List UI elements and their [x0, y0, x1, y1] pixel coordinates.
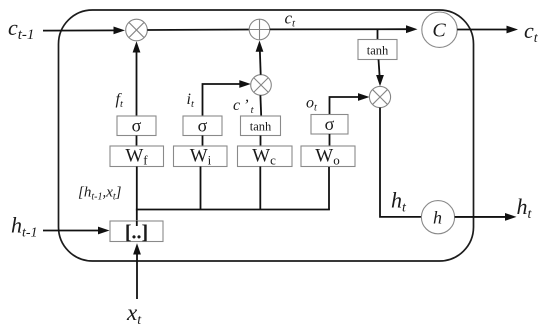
wire Wf down to concat box — [136, 167, 138, 226]
svg-text:C: C — [432, 20, 446, 42]
wire Wo down to bus — [328, 167, 330, 210]
gate box sigma1 — [117, 116, 156, 136]
wire tanh gate to Wc — [260, 136, 262, 147]
svg-text:ht: ht — [391, 188, 407, 216]
svg-text:ct: ct — [524, 18, 539, 46]
wire multiplier X3 down and right to output — [380, 108, 508, 217]
weight box Wf — [110, 146, 164, 168]
wire adder to C circle — [270, 28, 408, 30]
svg-text:ft: ft — [116, 91, 124, 110]
weight box Wc — [238, 146, 293, 168]
wire elbow sigma4 to multiplier X3 — [330, 97, 364, 115]
multiplier X3 (output gate product) — [369, 86, 390, 107]
svg-text:c ’t: c ’t — [233, 97, 255, 116]
tanh block (output activation) — [358, 40, 397, 60]
wire Wi down to bus — [200, 167, 202, 210]
concat box [..] — [110, 221, 163, 244]
wire c_t-1 to multiplier — [43, 29, 115, 31]
svg-text:xt: xt — [126, 300, 142, 328]
wire h circle to output (over border) — [455, 216, 508, 218]
wire tanh block to multiplier X3 — [379, 60, 380, 80]
svg-text:ct: ct — [285, 9, 297, 30]
svg-text:ct-1: ct-1 — [8, 15, 34, 43]
svg-text:tanh: tanh — [367, 44, 389, 58]
svg-text:[..]: [..] — [125, 222, 148, 244]
svg-text:σ: σ — [132, 116, 142, 136]
multiplier X1 (forget gate product) — [126, 19, 148, 41]
wire Wc down to bus — [259, 167, 261, 210]
weight box Wo — [301, 146, 355, 168]
wire multiplier X2 up to adder — [260, 46, 261, 75]
multiplier X2 (input x candidate) — [251, 75, 272, 96]
wire elbow sigma2 to multiplier X2 — [203, 84, 245, 116]
cell body rounded rectangle — [59, 10, 474, 261]
wire sigma2 to Wi — [202, 136, 204, 147]
h output circle — [421, 201, 454, 234]
wire sigma1 to Wf — [136, 136, 138, 147]
gate box sigma2 — [183, 116, 222, 136]
wire multiplier X2 down to tanh gate box — [259, 95, 262, 116]
wire sigma4 to Wo — [329, 134, 331, 146]
wire x_t up to concat box — [136, 249, 138, 299]
wire h_t-1 to concat box — [43, 230, 101, 232]
adder (plus circle) — [249, 19, 270, 40]
C state circle — [422, 12, 457, 47]
wire C circle to output c_t — [457, 29, 509, 31]
gate box sigma4 — [311, 114, 348, 134]
wire sigma1 up to multiplier X1 — [136, 46, 138, 116]
weight box Wi — [174, 146, 228, 168]
svg-text:[ht-1,xt]: [ht-1,xt] — [78, 185, 122, 203]
svg-text:ht-1: ht-1 — [11, 213, 38, 241]
wire junction down to tanh block — [377, 29, 379, 39]
svg-text:it: it — [187, 91, 195, 110]
svg-text:ot: ot — [306, 95, 318, 114]
bus wire horizontal — [136, 209, 330, 211]
svg-text:σ: σ — [325, 114, 335, 134]
gate box tanh (candidate) — [241, 116, 281, 136]
svg-text:ht: ht — [517, 194, 533, 222]
wire multiplier X1 to adder — [147, 29, 249, 32]
svg-text:tanh: tanh — [250, 120, 272, 134]
svg-text:σ: σ — [198, 116, 208, 136]
svg-text:h: h — [433, 208, 442, 228]
